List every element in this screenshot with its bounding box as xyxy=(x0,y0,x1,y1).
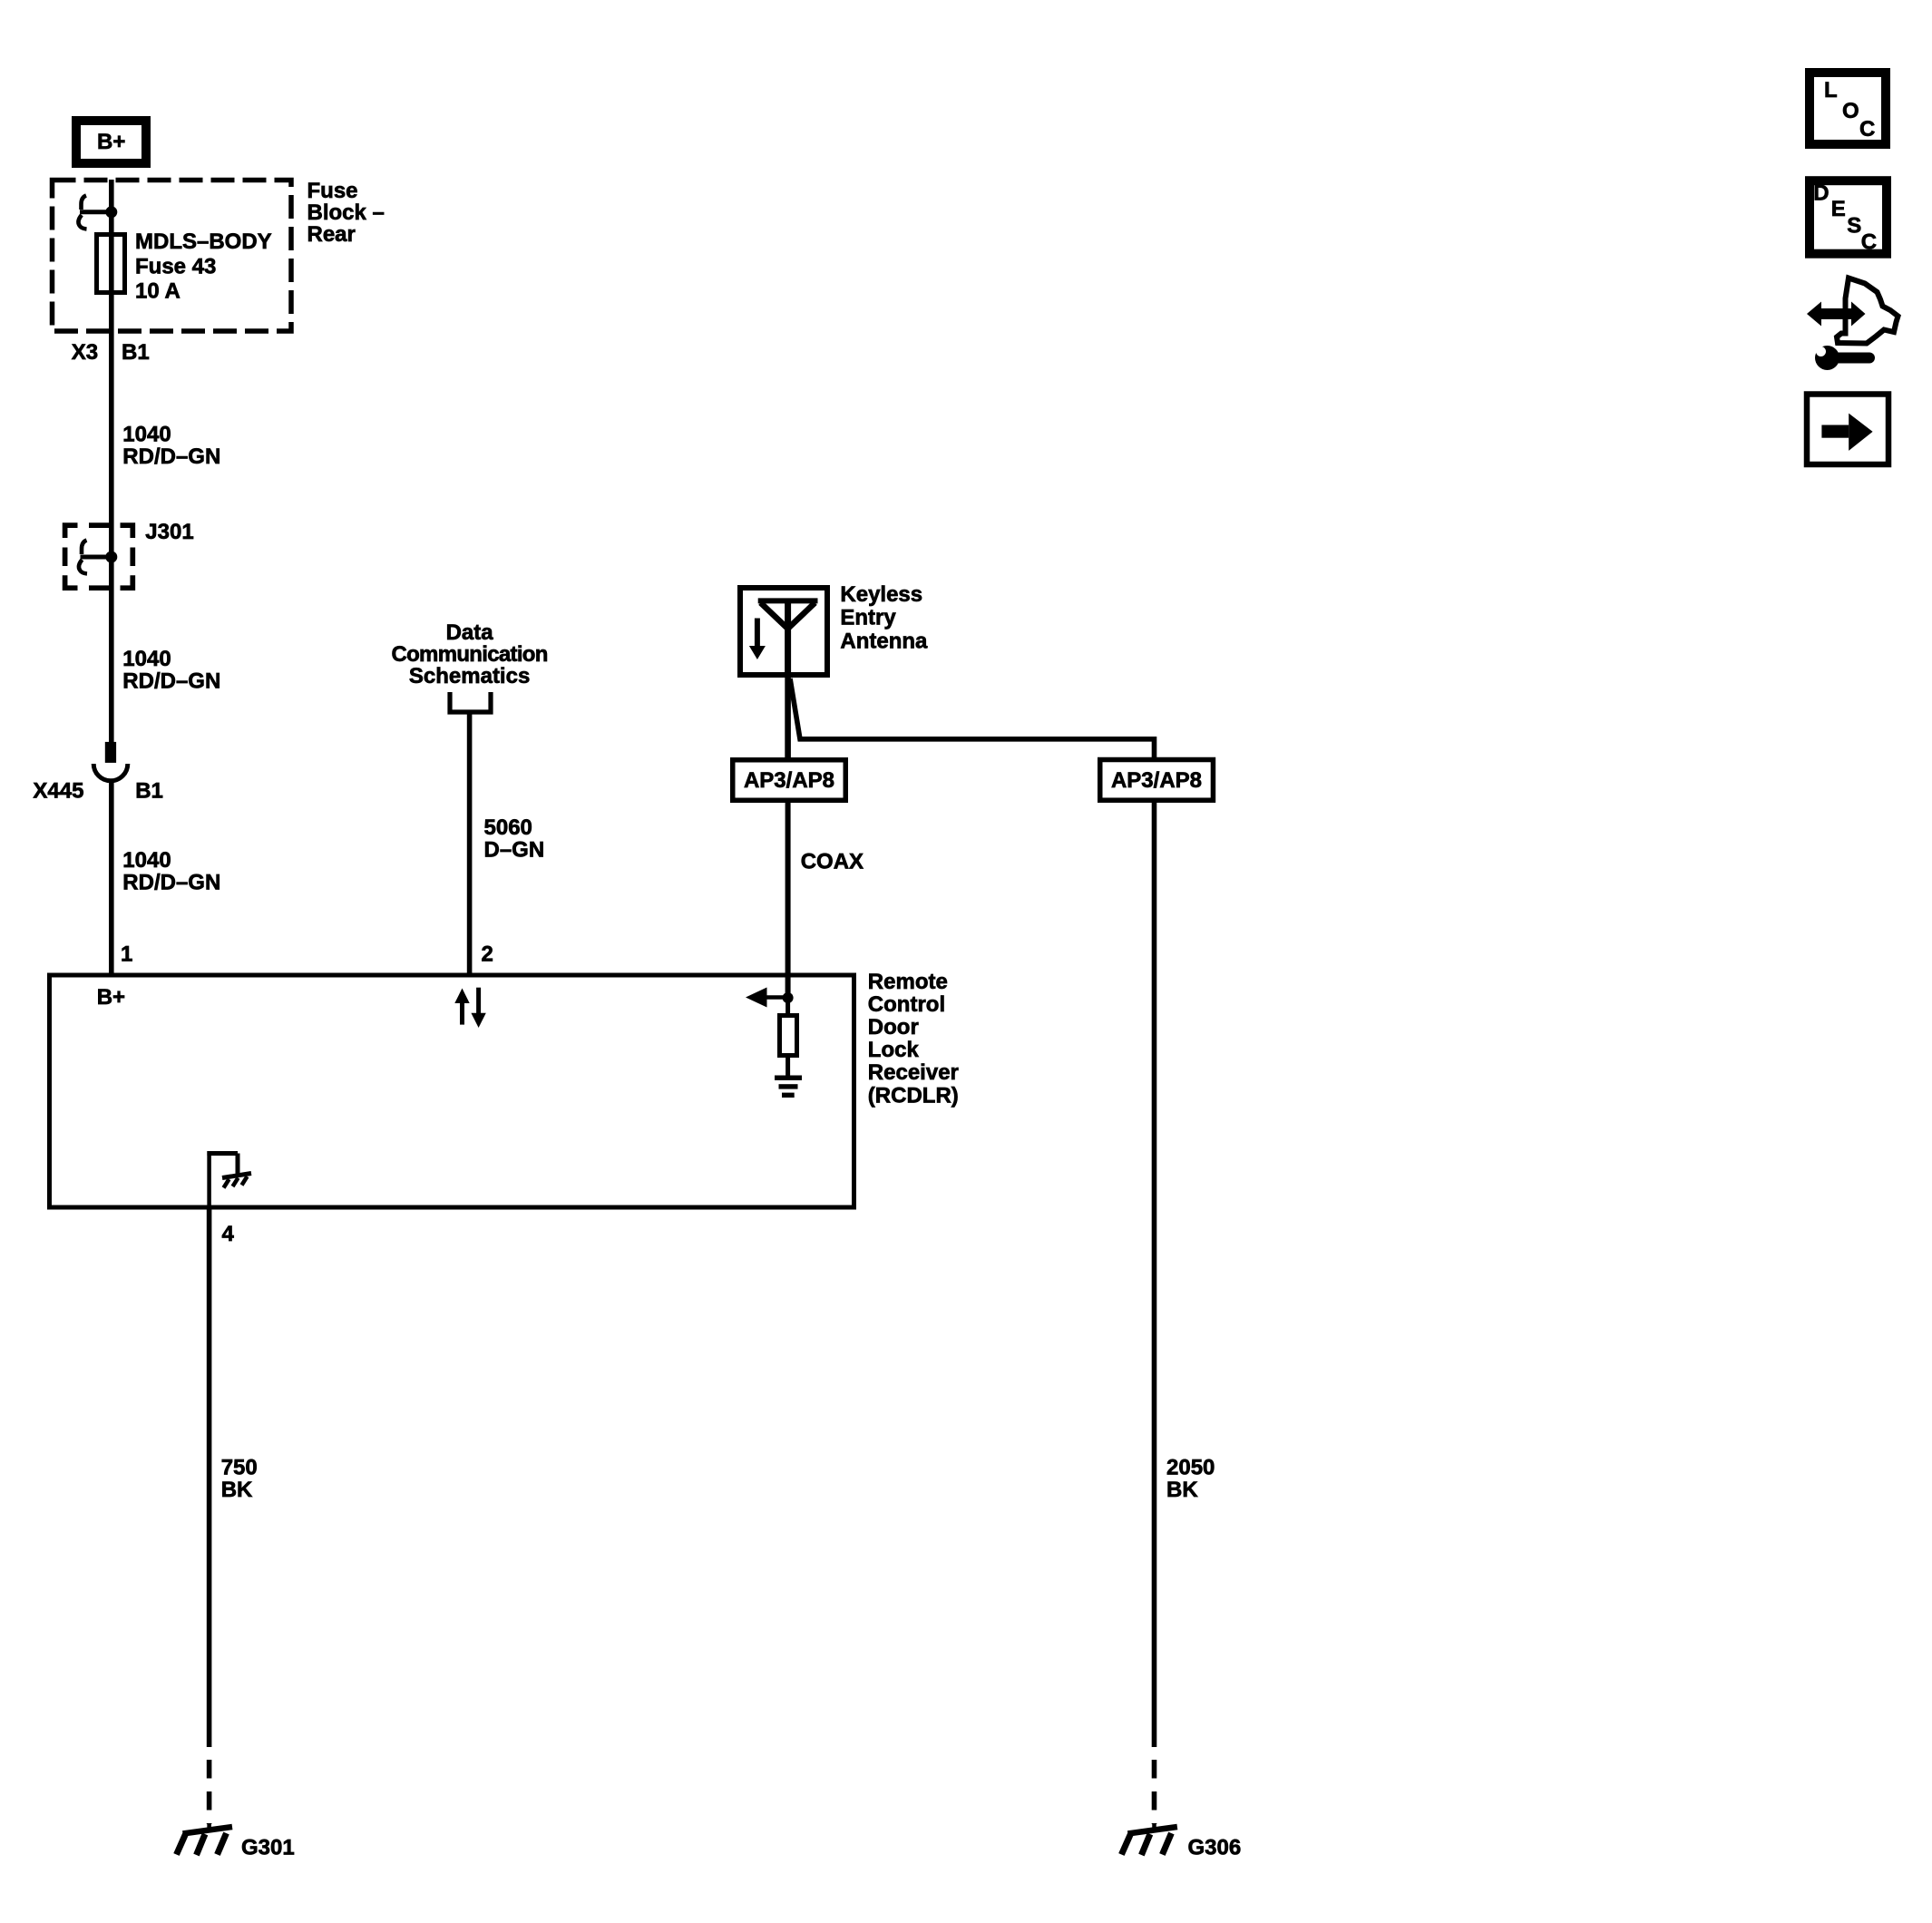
svg-text:Receiver: Receiver xyxy=(868,1060,959,1085)
inline connector X445 xyxy=(93,742,128,781)
wire data comm to RCDLR pin 2 xyxy=(467,712,473,975)
svg-text:MDLS–BODY: MDLS–BODY xyxy=(135,229,272,254)
svg-text:C: C xyxy=(1861,230,1877,255)
svg-text:Antenna: Antenna xyxy=(840,630,928,654)
svg-text:10 A: 10 A xyxy=(135,279,181,304)
chassis ground G301 xyxy=(177,1824,233,1856)
svg-text:1040: 1040 xyxy=(122,647,171,671)
svg-text:G306: G306 xyxy=(1188,1836,1242,1860)
svg-text:E: E xyxy=(1831,197,1846,221)
svg-text:Entry: Entry xyxy=(840,606,896,630)
chassis ground G306 xyxy=(1121,1824,1177,1856)
svg-text:RD/D–GN: RD/D–GN xyxy=(122,871,220,895)
diagonal wire from antenna xyxy=(790,678,1155,757)
svg-text:B+: B+ xyxy=(97,130,125,154)
svg-text:Remote: Remote xyxy=(868,970,948,994)
wire B+ to fuse to X445 xyxy=(109,180,114,742)
wire label 5060 D-GN xyxy=(484,815,545,863)
label Data Communication Schematics xyxy=(391,620,547,688)
down arrow in antenna box xyxy=(749,619,766,660)
svg-text:C: C xyxy=(1859,117,1875,142)
B+ power terminal box xyxy=(76,121,146,163)
antenna symbol xyxy=(758,600,818,678)
LOC icon box xyxy=(1810,73,1886,144)
svg-text:BK: BK xyxy=(221,1478,253,1502)
wire X445 to RCDLR pin 1 xyxy=(109,779,114,975)
svg-text:B1: B1 xyxy=(122,340,150,365)
svg-text:D–GN: D–GN xyxy=(484,838,545,863)
wire label 1040 RD/D-GN (2) xyxy=(122,647,220,694)
coax wire antenna to AP3/AP8 xyxy=(785,678,791,757)
signal ground symbol xyxy=(775,1076,802,1098)
coax wire to RCDLR xyxy=(785,803,791,998)
wire 2050 BK dashed xyxy=(1152,1760,1157,1824)
svg-text:Block –: Block – xyxy=(307,200,385,225)
wire 750 BK dashed xyxy=(207,1760,212,1824)
label Fuse Block - Rear xyxy=(307,179,385,247)
svg-text:Data: Data xyxy=(446,620,494,645)
forward arrow icon box xyxy=(1807,395,1888,465)
fuse terminal hook in fuse block xyxy=(78,196,117,229)
wire label 1040 RD/D-GN (3) xyxy=(122,848,220,895)
svg-text:AP3/AP8: AP3/AP8 xyxy=(1111,768,1202,793)
svg-text:Schematics: Schematics xyxy=(409,664,530,688)
label Keyless Entry Antenna xyxy=(840,582,928,654)
fuse MDLS-BODY Fuse 43 10A xyxy=(97,235,125,293)
svg-text:Keyless: Keyless xyxy=(840,582,922,607)
svg-text:1040: 1040 xyxy=(122,848,171,873)
svg-text:RD/D–GN: RD/D–GN xyxy=(122,444,220,469)
svg-text:Lock: Lock xyxy=(868,1038,920,1062)
termination resistor xyxy=(780,1016,797,1056)
svg-text:Communication: Communication xyxy=(391,642,547,667)
svg-text:Rear: Rear xyxy=(307,222,356,247)
svg-text:Door: Door xyxy=(868,1015,919,1040)
label Remote Control Door Lock Receiver (RCDLR) xyxy=(868,970,959,1108)
antenna input arrow inside RCDLR xyxy=(746,988,788,1008)
svg-text:750: 750 xyxy=(221,1456,258,1480)
splice hook symbol xyxy=(79,541,117,574)
keyless entry antenna box xyxy=(740,588,827,675)
svg-text:RD/D–GN: RD/D–GN xyxy=(122,669,220,694)
svg-text:D: D xyxy=(1813,181,1829,206)
connector AP3/AP8 left xyxy=(733,760,846,801)
RCDLR module box xyxy=(50,975,854,1207)
svg-text:5060: 5060 xyxy=(484,815,532,840)
svg-text:4: 4 xyxy=(222,1222,235,1246)
svg-text:2: 2 xyxy=(482,942,493,967)
svg-text:(RCDLR): (RCDLR) xyxy=(868,1084,959,1108)
svg-text:J301: J301 xyxy=(145,520,193,544)
svg-text:Fuse 43: Fuse 43 xyxy=(135,255,216,279)
svg-text:L: L xyxy=(1824,78,1838,102)
internal chassis ground at pin 4 xyxy=(207,1151,251,1207)
DESC icon box xyxy=(1810,181,1887,254)
connector AP3/AP8 right xyxy=(1100,760,1214,801)
svg-text:COAX: COAX xyxy=(801,850,864,874)
wire label 750 BK xyxy=(221,1456,258,1503)
fuse block dashed box xyxy=(53,181,292,332)
bidirectional data arrows at pin 2 xyxy=(454,988,486,1028)
svg-text:O: O xyxy=(1842,99,1859,123)
svg-text:1040: 1040 xyxy=(122,423,171,447)
svg-text:B+: B+ xyxy=(97,985,125,1010)
wire label 1040 RD/D-GN (1) xyxy=(122,423,220,470)
svg-text:1: 1 xyxy=(121,942,132,967)
svg-text:X3: X3 xyxy=(72,340,98,365)
wire 750 BK solid xyxy=(207,1207,212,1747)
wrench icon xyxy=(1815,346,1875,370)
svg-text:B1: B1 xyxy=(135,779,163,804)
svg-text:AP3/AP8: AP3/AP8 xyxy=(744,768,834,793)
junction node coax/termination xyxy=(783,992,794,1003)
svg-text:2050: 2050 xyxy=(1166,1456,1215,1480)
svg-text:S: S xyxy=(1847,214,1861,239)
svg-text:BK: BK xyxy=(1166,1478,1198,1502)
svg-text:Fuse: Fuse xyxy=(307,179,358,203)
wire 2050 BK solid xyxy=(1152,803,1157,1748)
svg-text:Control: Control xyxy=(868,992,945,1017)
removed-parts hand icon xyxy=(1807,278,1898,344)
splice J301 dashed box xyxy=(65,525,133,588)
off-page bracket symbol xyxy=(450,692,491,712)
wire label 2050 BK xyxy=(1166,1456,1215,1503)
svg-text:G301: G301 xyxy=(241,1836,295,1860)
svg-text:X445: X445 xyxy=(33,779,83,804)
wire resistor to signal ground xyxy=(785,1056,790,1077)
wire to termination resistor xyxy=(785,998,790,1015)
